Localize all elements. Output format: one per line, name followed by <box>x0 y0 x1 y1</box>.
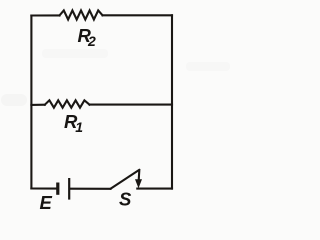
switch S arrowhead <box>135 179 142 188</box>
wire bottom-left segment <box>31 187 56 189</box>
faint scan smudge top-left <box>42 49 108 58</box>
wire left vertical <box>30 16 32 189</box>
wire bottom-right segment <box>137 188 172 190</box>
faint scan smudge right <box>186 62 230 71</box>
svg-text:E: E <box>40 192 53 213</box>
battery E negative plate (short, thick) <box>56 183 59 195</box>
wire middle-right segment <box>90 104 173 106</box>
svg-text:2: 2 <box>87 33 96 49</box>
wire middle-left segment <box>31 104 44 106</box>
wire top-left segment <box>31 14 59 16</box>
wire top-right segment <box>103 14 173 16</box>
battery E positive plate (long, thin) <box>68 178 70 200</box>
wire battery-to-switch segment <box>70 188 110 190</box>
faint scan smudge left-middle <box>1 94 27 106</box>
resistor R1 <box>45 100 90 107</box>
switch S blade <box>111 170 140 189</box>
wire right vertical <box>171 15 173 188</box>
svg-text:1: 1 <box>75 119 83 135</box>
svg-text:S: S <box>119 188 132 209</box>
resistor R2 <box>60 10 103 19</box>
switch S arrow shaft <box>138 170 141 180</box>
